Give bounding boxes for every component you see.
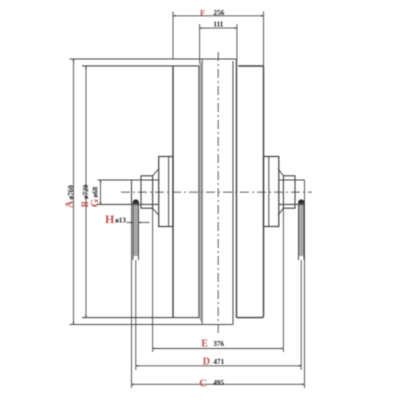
svg-text:376: 376 [213, 340, 224, 348]
axle right segment [279, 180, 305, 204]
svg-text:495: 495 [213, 379, 224, 387]
svg-text:ø13: ø13 [115, 216, 126, 224]
svg-text:H: H [105, 212, 115, 226]
label B d720 [81, 184, 91, 207]
extension line A top / flange top edge [70, 58, 237, 60]
dimension B [85, 66, 87, 318]
right support block [278, 169, 295, 215]
extension line A bottom / flange bottom edge [70, 324, 234, 326]
label A d760 [65, 185, 76, 208]
svg-text:256: 256 [213, 9, 224, 17]
wheel vertical center line [217, 52, 219, 333]
svg-text:ø68: ø68 [91, 186, 99, 197]
label H d13 [105, 212, 126, 226]
svg-text:A: A [65, 200, 76, 208]
right bolt hole [299, 200, 305, 260]
svg-text:ø760: ø760 [67, 185, 75, 200]
axle left segment [98, 180, 159, 204]
wheel left tread outline [172, 66, 174, 318]
extension line B top / left tread top edge [82, 65, 199, 67]
dimension E [153, 208, 284, 352]
label G d68 [89, 186, 101, 207]
svg-text:111: 111 [213, 20, 223, 28]
dimension 111 [200, 24, 237, 64]
svg-text:F: F [200, 7, 205, 17]
svg-text:G: G [89, 198, 101, 207]
dimension C [132, 180, 305, 388]
right hub boss [264, 157, 279, 227]
wheel right tread outline [237, 66, 264, 318]
label E 376 [201, 338, 224, 349]
dimension G [100, 180, 102, 204]
svg-text:471: 471 [213, 358, 224, 366]
left bolt hole [133, 200, 139, 260]
svg-text:ø720: ø720 [82, 184, 90, 199]
extension line B bottom / left tread bottom edge [82, 317, 199, 319]
left hub boss [159, 157, 173, 227]
label D 471 [203, 357, 225, 368]
dimension F [173, 12, 264, 67]
dimension H leader [127, 222, 150, 224]
label C 495 [199, 378, 224, 389]
label F 256 [200, 7, 225, 17]
left support block [141, 169, 159, 215]
flange cone gray band [199, 59, 203, 325]
dimension A [73, 59, 75, 325]
svg-text:E: E [201, 338, 208, 349]
dimension D [136, 260, 301, 370]
flange right edge pair [233, 59, 237, 324]
svg-text:C: C [199, 378, 207, 389]
svg-text:D: D [203, 357, 210, 368]
axle center line [121, 191, 312, 193]
